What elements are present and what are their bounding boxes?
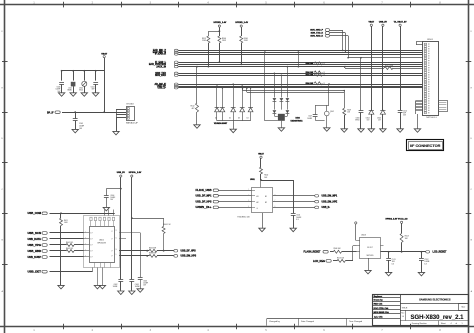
svg-text:VBAT: VBAT (258, 153, 264, 156)
svg-text:1.0: 1.0 (402, 316, 404, 318)
svg-text:R504 10K: R504 10K (306, 62, 314, 65)
svg-text:Q502: Q502 (330, 111, 334, 113)
svg-text:MIC5205: MIC5205 (367, 255, 374, 257)
svg-text:DP: DP (111, 239, 113, 241)
svg-text:BP_IF: BP_IF (47, 112, 54, 114)
svg-text:Sheet: Sheet (441, 322, 446, 325)
svg-text:Rev: Rev (401, 313, 404, 315)
svg-text:100NF: 100NF (110, 197, 115, 199)
svg-text:USB_SCN: USB_SCN (28, 233, 42, 235)
svg-text:C506: C506 (56, 87, 60, 89)
svg-text:HP502_1.8V VCC2_2.8: HP502_1.8V VCC2_2.8 (386, 219, 409, 221)
svg-text:USB_DM_HPS: USB_DM_HPS (181, 256, 197, 258)
svg-text:USB_VPG: USB_VPG (28, 245, 42, 247)
svg-text:C605: C605 (143, 280, 147, 282)
svg-text:TITLE:: TITLE: (402, 307, 409, 309)
svg-text:HPSOL_1.8V: HPSOL_1.8V (129, 172, 142, 174)
svg-text:Drawing Number: Drawing Number (412, 323, 427, 325)
svg-text:R504 10K: R504 10K (306, 74, 314, 77)
svg-text:R513 10K: R513 10K (337, 257, 345, 259)
svg-text:6.3: 6.3 (392, 264, 394, 266)
svg-text:Drawn by: Drawn by (374, 299, 384, 301)
svg-text:D1: D1 (215, 118, 217, 120)
svg-text:D4: D4 (247, 118, 249, 120)
svg-text:USB_DM_HPE: USB_DM_HPE (322, 201, 338, 203)
svg-text:SS24: SS24 (79, 90, 83, 92)
svg-text:100NF: 100NF (143, 283, 148, 285)
svg-text:VBAT: VBAT (101, 53, 107, 56)
svg-text:LCD_RESET: LCD_RESET (433, 252, 448, 254)
svg-text:05T: 05T (378, 120, 381, 122)
svg-text:D504: D504 (366, 117, 370, 119)
svg-text:VBAT: VBAT (369, 20, 375, 23)
svg-text:USB_DF_HPS: USB_DF_HPS (181, 251, 197, 253)
svg-text:IF501: IF501 (427, 39, 433, 41)
svg-text:HPRXD_1.4V: HPRXD_1.4V (235, 21, 248, 24)
svg-text:R611: R611 (64, 220, 68, 222)
svg-text:USB_D+: USB_D+ (196, 207, 213, 209)
svg-text:B1: B1 (265, 196, 267, 198)
svg-text:SDN_GND_P: SDN_GND_P (310, 30, 323, 32)
svg-text:DOC CTRL Chk: DOC CTRL Chk (374, 308, 390, 310)
svg-text:10: 10 (116, 249, 118, 251)
svg-text:100NF: 100NF (135, 286, 140, 288)
svg-text:TS5DE33L 10K: TS5DE33L 10K (237, 217, 250, 219)
svg-text:USB_DF_MP1: USB_DF_MP1 (196, 196, 213, 198)
svg-text:D505: D505 (377, 117, 381, 119)
svg-text:R507 100R: R507 100R (385, 65, 394, 67)
svg-text:USB_5V: USB_5V (379, 21, 388, 23)
svg-text:L501: L501 (68, 88, 72, 90)
svg-text:R504 10K: R504 10K (306, 82, 314, 85)
svg-text:EARJACK-4P: EARJACK-4P (126, 122, 138, 125)
svg-text:USB_5V: USB_5V (117, 172, 126, 174)
svg-text:SDN_RXD_K: SDN_RXD_K (310, 36, 323, 38)
svg-text:USB_HBD: USB_HBD (28, 251, 42, 253)
svg-text:R604 1.5K: R604 1.5K (163, 224, 171, 226)
svg-text:D503: D503 (296, 118, 300, 120)
svg-text:SDN_RXD: SDN_RXD (155, 75, 166, 77)
svg-text:HPRXD_1.4V: HPRXD_1.4V (214, 21, 227, 24)
svg-text:FLASH_RESET: FLASH_RESET (304, 251, 322, 254)
svg-text:JACK_IN: JACK_IN (156, 65, 166, 68)
svg-text:1: 1 (462, 323, 463, 325)
svg-text:R603 1K5: R603 1K5 (66, 248, 73, 250)
svg-text:SGH-X830_rev_2.1: SGH-X830_rev_2.1 (410, 315, 464, 321)
svg-text:33P: 33P (403, 113, 406, 115)
svg-text:C507: C507 (308, 116, 312, 118)
svg-text:4: 4 (451, 323, 452, 325)
svg-text:DP: DP (111, 256, 113, 258)
svg-text:D3: D3 (238, 118, 240, 120)
svg-text:UMD9NTR05A: UMD9NTR05A (291, 120, 304, 123)
svg-text:TA_VBAT_5V: TA_VBAT_5V (394, 20, 408, 23)
svg-text:DP: DP (111, 231, 113, 233)
svg-text:Engineer: Engineer (374, 296, 383, 298)
svg-text:33P: 33P (92, 89, 95, 91)
svg-text:05T: 05T (367, 120, 370, 122)
svg-text:Q.A. Chk: Q.A. Chk (374, 316, 383, 319)
svg-text:SAMSUNG ELECTRONICS: SAMSUNG ELECTRONICS (419, 298, 451, 301)
svg-text:R&D Chk: R&D Chk (374, 303, 384, 305)
svg-text:Date Changed: Date Changed (301, 320, 314, 323)
svg-text:100NF: 100NF (56, 89, 61, 91)
svg-text:D2: D2 (229, 118, 231, 120)
svg-text:DP: DP (111, 250, 113, 252)
svg-text:R509: R509 (347, 109, 351, 111)
svg-text:I/F CONNECTOR: I/F CONNECTOR (410, 143, 441, 148)
svg-text:6.3: 6.3 (424, 264, 426, 266)
svg-text:12: 12 (116, 230, 118, 232)
svg-text:USB_SUSP: USB_SUSP (28, 257, 42, 259)
svg-text:C604: C604 (110, 195, 114, 197)
svg-text:R606 33R: R606 33R (149, 253, 157, 255)
svg-text:C603: C603 (135, 284, 139, 286)
svg-text:C602: C602 (114, 284, 118, 286)
svg-text:R602 1K5: R602 1K5 (66, 242, 73, 244)
svg-text:R605 33R: R605 33R (149, 248, 157, 250)
svg-text:Time Changed: Time Changed (349, 321, 362, 323)
svg-text:11: 11 (116, 237, 118, 239)
svg-text:USB_D-: USB_D- (157, 88, 166, 90)
svg-text:D501: D501 (79, 88, 83, 90)
svg-text:100NF: 100NF (307, 118, 312, 120)
svg-text:ISP1301W: ISP1301W (97, 243, 106, 245)
svg-text:USB_DM_MP1: USB_DM_MP1 (322, 196, 338, 198)
svg-text:NXT1001-1: NXT1001-1 (426, 117, 437, 119)
svg-text:USB_DATA: USB_DATA (28, 238, 42, 241)
svg-text:USB_COM: USB_COM (28, 213, 42, 215)
svg-text:USB_DET: USB_DET (28, 272, 42, 274)
svg-text:USB_DF_HPS: USB_DF_HPS (196, 201, 212, 203)
svg-text:VZUMD6.8D05T: VZUMD6.8D05T (214, 123, 228, 125)
svg-text:IF_EAR_R: IF_EAR_R (155, 53, 166, 56)
svg-text:4K7: 4K7 (191, 108, 194, 110)
svg-text:USB_D-: USB_D- (322, 207, 331, 209)
svg-text:C510: C510 (403, 110, 407, 112)
svg-text:R508 10K: R508 10K (334, 248, 342, 250)
svg-text:FLICK_USB: FLICK_USB (196, 190, 212, 192)
svg-text:BTO463: BTO463 (126, 104, 133, 106)
svg-text:LCD_REG: LCD_REG (313, 261, 325, 263)
svg-text:Changed by: Changed by (269, 321, 280, 323)
svg-text:6.3: 6.3 (296, 219, 298, 221)
svg-text:D506: D506 (356, 117, 360, 119)
svg-text:IN OUT: IN OUT (367, 247, 372, 249)
svg-text:100NF: 100NF (113, 286, 118, 288)
svg-text:C504: C504 (91, 87, 95, 89)
svg-text:B2: B2 (265, 202, 267, 204)
svg-text:SDN_TXD_K: SDN_TXD_K (311, 33, 324, 35)
svg-text:MFG ENGR Chk: MFG ENGR Chk (374, 312, 390, 314)
